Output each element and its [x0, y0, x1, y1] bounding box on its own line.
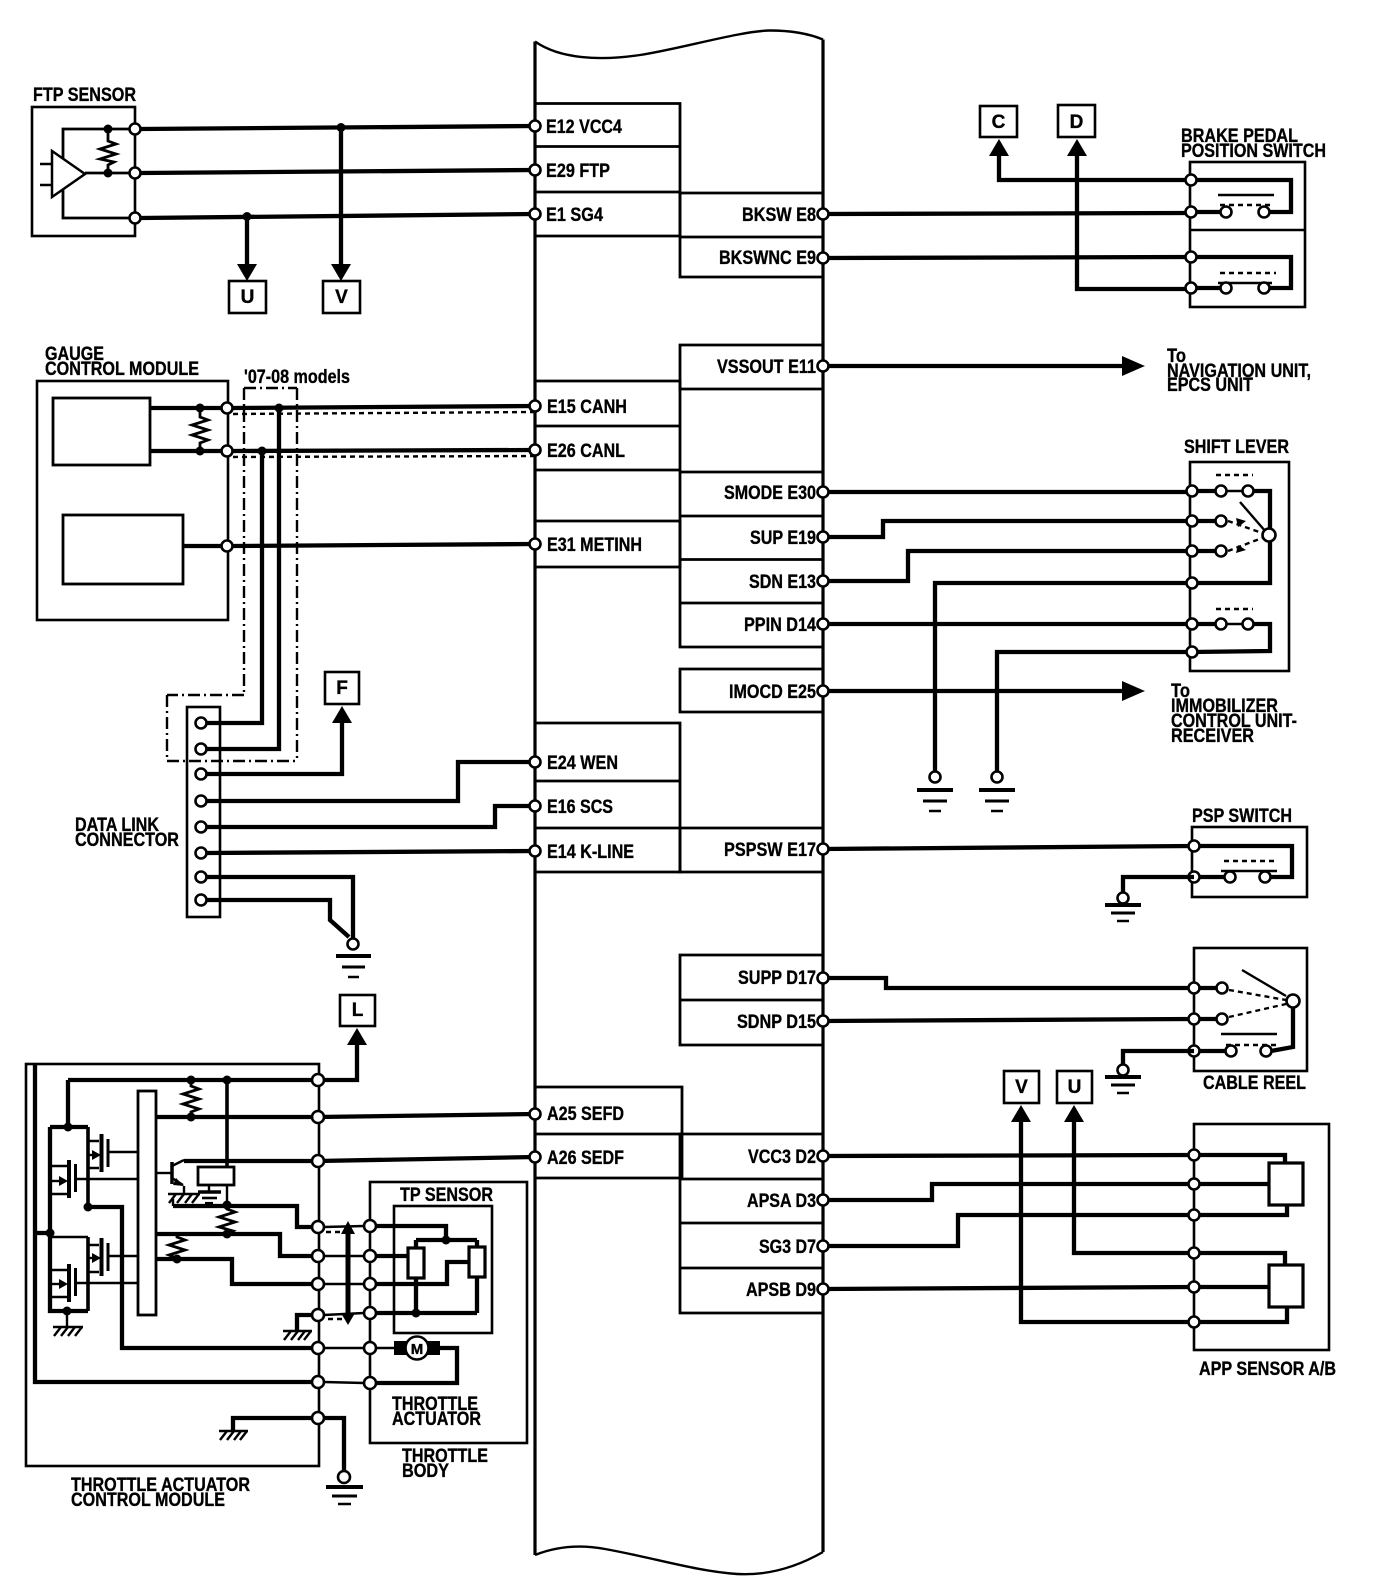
- svg-text:E15 CANH: E15 CANH: [547, 397, 627, 418]
- svg-text:E31 METINH: E31 METINH: [547, 535, 642, 556]
- svg-text:E12 VCC4: E12 VCC4: [546, 117, 622, 138]
- svg-text:M: M: [411, 1341, 424, 1358]
- svg-text:ACTUATOR: ACTUATOR: [392, 1409, 481, 1430]
- svg-text:TP SENSOR: TP SENSOR: [400, 1185, 493, 1206]
- svg-text:BKSW E8: BKSW E8: [742, 205, 816, 226]
- svg-text:E16 SCS: E16 SCS: [547, 797, 613, 818]
- svg-text:SUP E19: SUP E19: [750, 528, 816, 549]
- svg-text:APSB D9: APSB D9: [746, 1280, 816, 1301]
- svg-text:E1 SG4: E1 SG4: [546, 205, 603, 226]
- svg-text:SMODE E30: SMODE E30: [724, 483, 816, 504]
- svg-text:SDNP D15: SDNP D15: [737, 1012, 816, 1033]
- svg-text:D: D: [1070, 112, 1084, 133]
- svg-text:VSSOUT E11: VSSOUT E11: [717, 357, 816, 378]
- svg-text:E24 WEN: E24 WEN: [547, 753, 618, 774]
- svg-text:PSP SWITCH: PSP SWITCH: [1192, 806, 1292, 827]
- svg-text:SG3 D7: SG3 D7: [759, 1237, 816, 1258]
- svg-text:APSA D3: APSA D3: [747, 1191, 816, 1212]
- svg-text:RECEIVER: RECEIVER: [1171, 726, 1254, 747]
- svg-text:SUPP D17: SUPP D17: [738, 968, 816, 989]
- svg-text:BODY: BODY: [402, 1461, 449, 1482]
- svg-text:IMOCD E25: IMOCD E25: [729, 682, 816, 703]
- svg-text:V: V: [335, 287, 348, 308]
- svg-text:'07-08 models: '07-08 models: [244, 367, 350, 388]
- svg-text:SHIFT LEVER: SHIFT LEVER: [1184, 437, 1289, 458]
- svg-text:FTP SENSOR: FTP SENSOR: [33, 85, 136, 106]
- svg-text:U: U: [241, 287, 255, 308]
- svg-text:APP SENSOR A/B: APP SENSOR A/B: [1199, 1359, 1336, 1380]
- svg-text:VCC3 D2: VCC3 D2: [748, 1147, 816, 1168]
- svg-text:L: L: [352, 1000, 364, 1021]
- svg-text:CABLE REEL: CABLE REEL: [1203, 1073, 1306, 1094]
- svg-text:PPIN D14: PPIN D14: [744, 615, 816, 636]
- svg-text:EPCS UNIT: EPCS UNIT: [1167, 375, 1253, 396]
- svg-text:U: U: [1068, 1077, 1082, 1098]
- svg-text:A26 SEDF: A26 SEDF: [547, 1148, 624, 1169]
- svg-text:CONTROL MODULE: CONTROL MODULE: [71, 1490, 225, 1511]
- svg-text:BKSWNC E9: BKSWNC E9: [719, 248, 816, 269]
- svg-text:E29 FTP: E29 FTP: [546, 161, 610, 182]
- svg-text:E14 K-LINE: E14 K-LINE: [547, 842, 634, 863]
- svg-text:A25 SEFD: A25 SEFD: [547, 1104, 624, 1125]
- svg-text:C: C: [992, 112, 1006, 133]
- svg-text:E26 CANL: E26 CANL: [547, 441, 625, 462]
- svg-text:POSITION SWITCH: POSITION SWITCH: [1181, 141, 1326, 162]
- svg-text:SDN E13: SDN E13: [749, 572, 816, 593]
- svg-text:CONNECTOR: CONNECTOR: [75, 830, 179, 851]
- svg-text:V: V: [1015, 1077, 1028, 1098]
- svg-text:PSPSW E17: PSPSW E17: [724, 840, 816, 861]
- svg-text:F: F: [336, 678, 348, 699]
- svg-text:CONTROL MODULE: CONTROL MODULE: [45, 359, 199, 380]
